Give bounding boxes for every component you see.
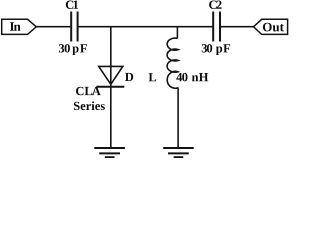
label nH — [176, 73, 208, 81]
label C2 — [209, 1, 221, 9]
label D — [125, 73, 133, 81]
capacitor C2 — [213, 12, 220, 42]
capacitor C1 — [71, 12, 77, 42]
label CLA — [76, 87, 101, 95]
ground (right) — [163, 148, 194, 157]
wire C2 to Out — [221, 26, 254, 28]
label pFL — [59, 44, 87, 55]
wire inductor branch top — [176, 26, 178, 39]
label L — [149, 73, 157, 81]
diode D anode triangle — [99, 66, 123, 84]
label pFR — [202, 44, 230, 55]
wire diode branch — [110, 26, 112, 148]
label C1 — [66, 1, 78, 9]
wire inductor branch bottom — [177, 88, 179, 148]
diode D cathode bar — [96, 86, 124, 88]
wire C1 to C2 — [79, 26, 213, 28]
ground (left) — [94, 148, 125, 157]
label In — [10, 22, 21, 31]
label Out — [263, 23, 284, 32]
label Series — [74, 101, 105, 110]
wire In to C1 — [36, 26, 71, 28]
inductor L coil — [167, 38, 178, 88]
port Out — [254, 19, 288, 34]
port In — [2, 19, 37, 34]
